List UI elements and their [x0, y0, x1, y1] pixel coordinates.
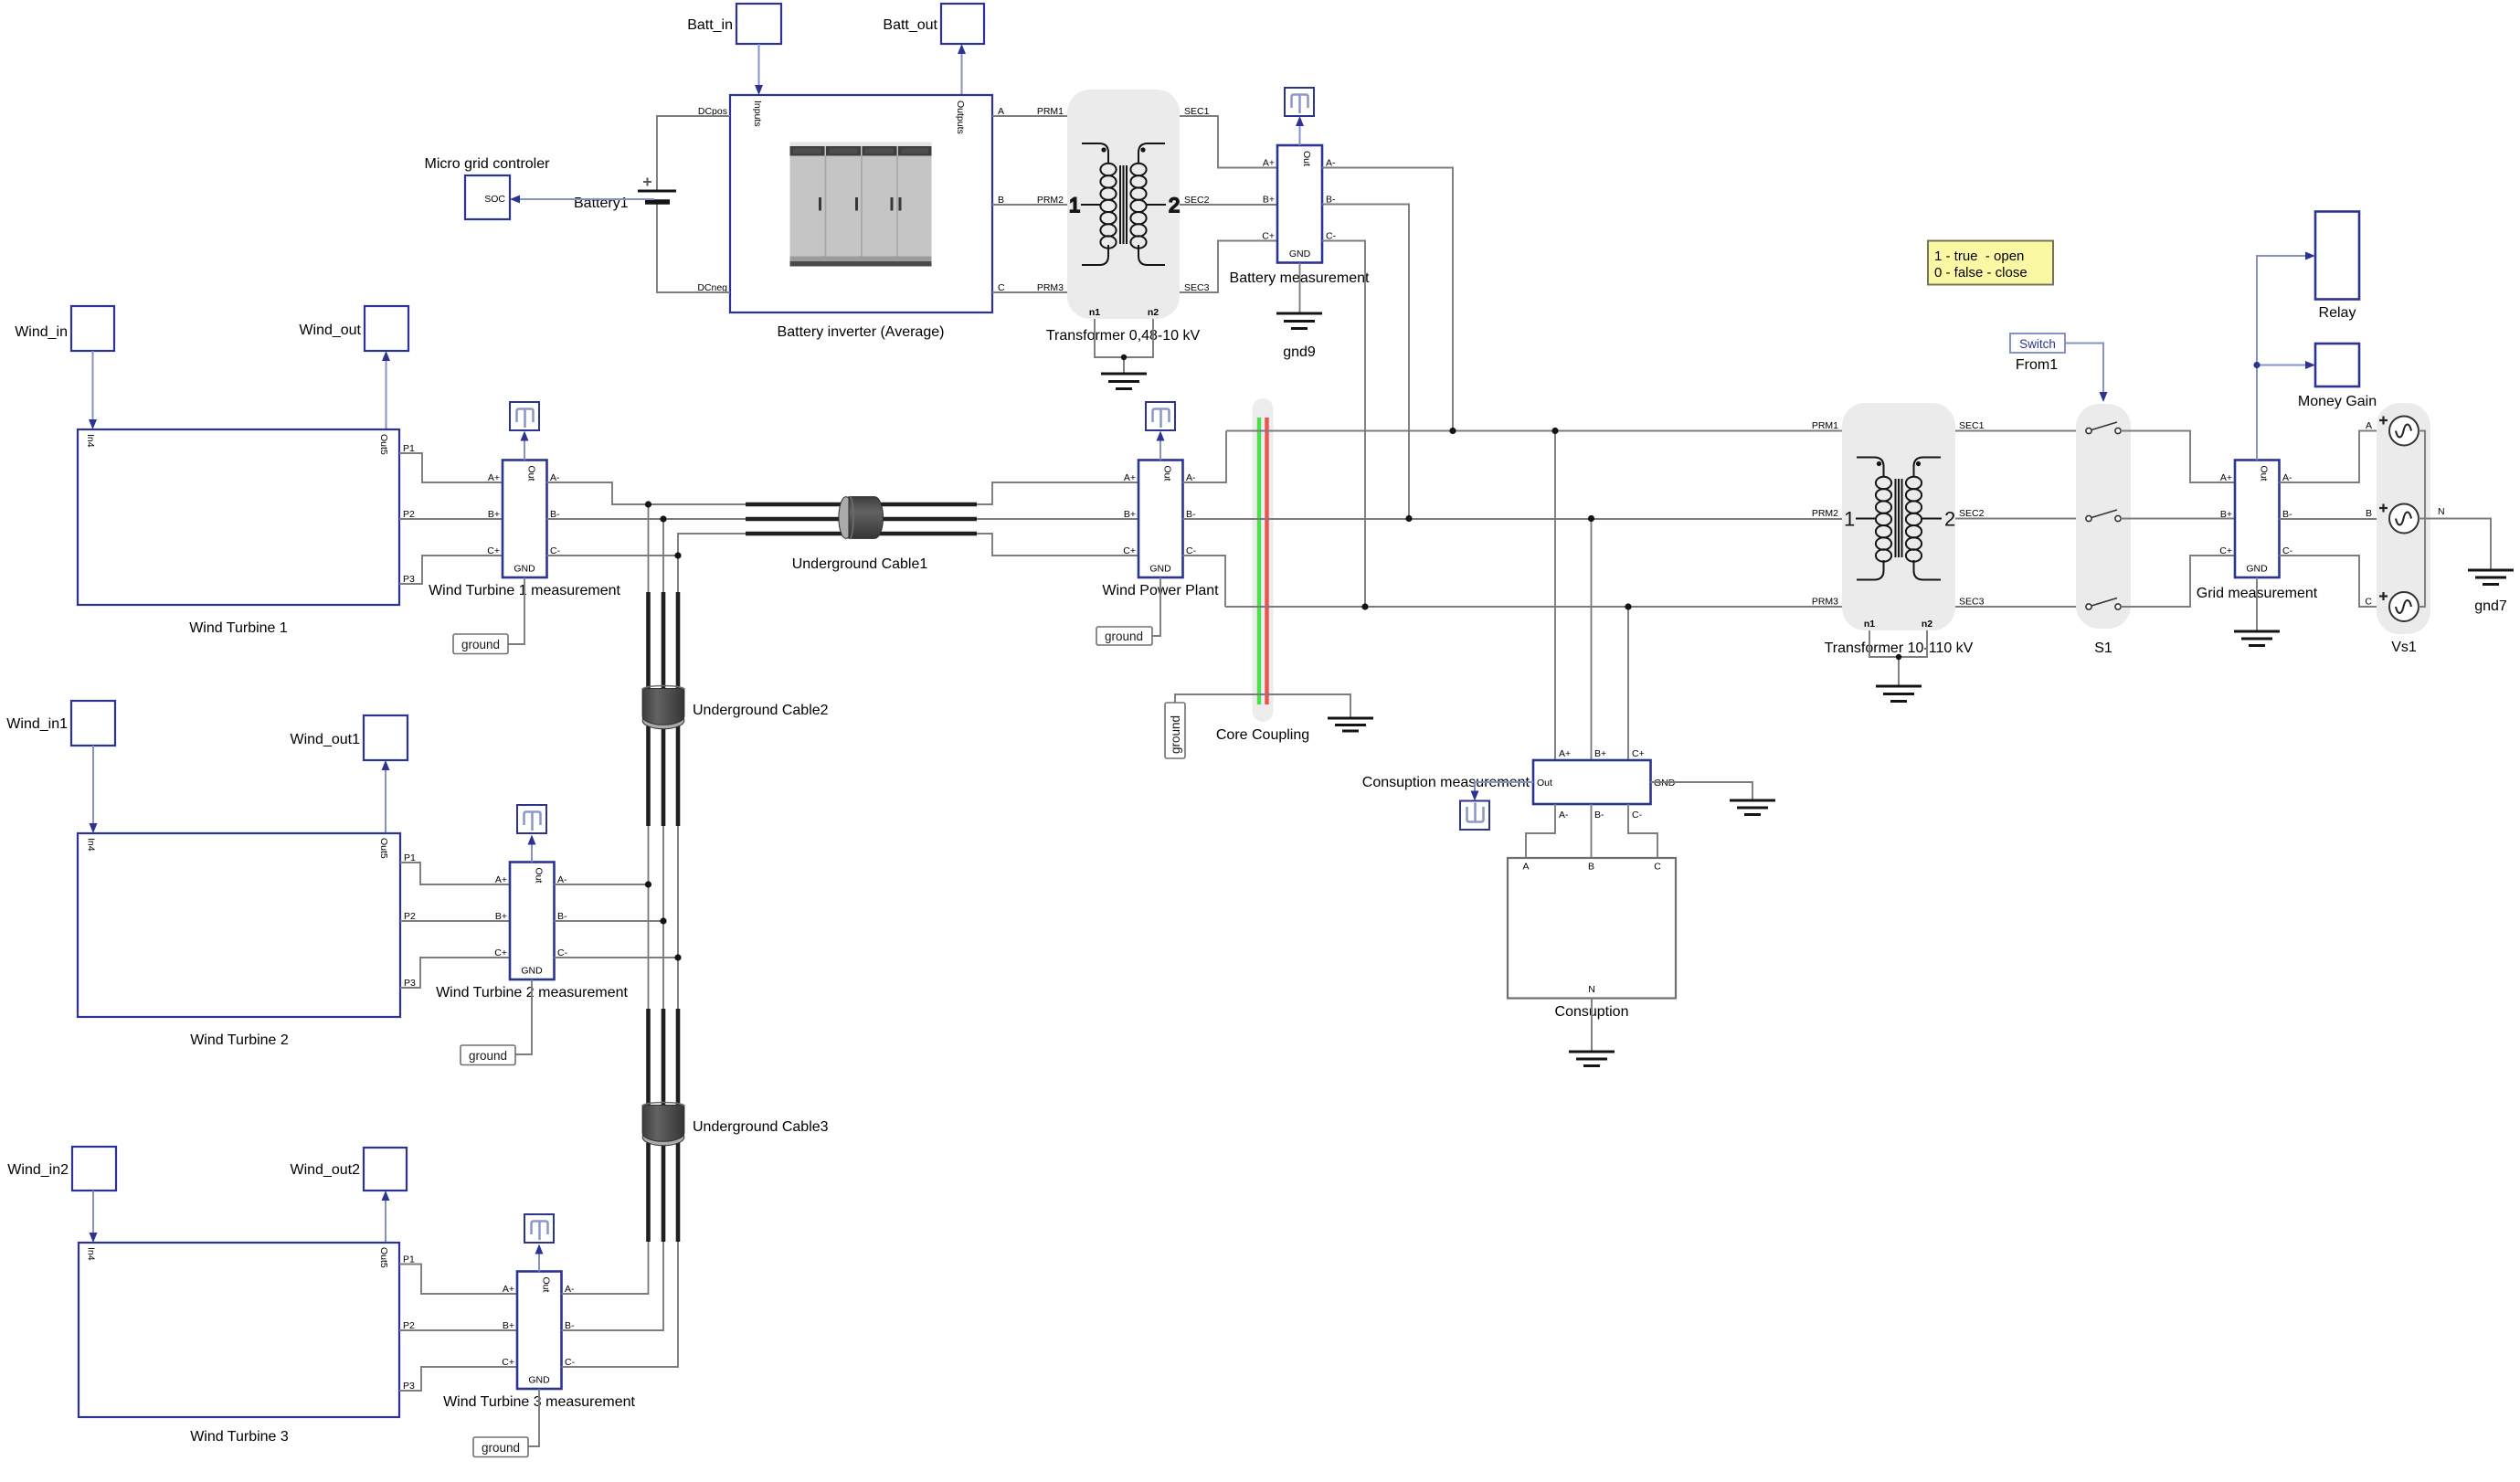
wire WT1 measurement A- to bus — [547, 482, 752, 504]
svg-text:SEC2: SEC2 — [1959, 508, 1985, 519]
wire battery measurement C- down to bus row3 — [1322, 241, 1365, 608]
svg-text:Out5: Out5 — [378, 1247, 389, 1268]
svg-text:n1: n1 — [1864, 619, 1875, 630]
bus row3 10kV — [1225, 606, 1842, 608]
subsystem Wind Turbine 1 — [78, 429, 415, 636]
svg-text:Wind_out1: Wind_out1 — [291, 732, 361, 747]
scope block Money Gain — [2298, 344, 2377, 409]
scope block Relay — [2315, 212, 2359, 322]
svg-text:1 - true - open: 1 - true - open — [1934, 249, 2024, 264]
svg-text:SEC3: SEC3 — [1959, 597, 1985, 608]
wire consumption measurement B- to Consuption B — [1591, 804, 1593, 858]
svg-text:Wind Turbine 1: Wind Turbine 1 — [189, 620, 288, 636]
load block Consuption — [1508, 858, 1676, 1020]
signal wire WT1 measurement Out to scope — [521, 431, 529, 460]
inport block Batt_in — [687, 4, 781, 44]
wire S1 row1 to grid measurement A+ — [2121, 431, 2235, 483]
svg-text:B+: B+ — [495, 911, 507, 922]
inport block Wind_in — [15, 306, 114, 351]
wire Wind Power Plant B- to bus row2 — [1183, 518, 1843, 520]
wire SEC2 to S1 — [1955, 518, 2086, 520]
svg-text:Battery inverter (Average): Battery inverter (Average) — [778, 324, 945, 340]
svg-text:C+: C+ — [1123, 545, 1136, 556]
svg-text:gnd9: gnd9 — [1283, 344, 1316, 360]
signal wire WT2 measurement Out to scope — [528, 835, 536, 863]
wire consumption measurement GND to ground — [1651, 782, 1753, 800]
ground tag WT2 — [461, 1045, 515, 1065]
svg-text:Switch: Switch — [2019, 337, 2056, 351]
signal wire consumption measurement Out to scope — [1471, 782, 1534, 801]
wire SEC3 to S1 — [1955, 606, 2086, 608]
wire grid measurement A- to Vs1 A — [2280, 431, 2391, 483]
svg-text:Out: Out — [541, 1277, 552, 1293]
svg-text:A+: A+ — [495, 874, 507, 885]
svg-text:Batt_out: Batt_out — [883, 17, 937, 33]
subsystem Wind Turbine 3 — [79, 1243, 415, 1445]
signal wire Wind_in1 to Wind Turbine 2 In4 — [90, 746, 98, 833]
svg-text:A+: A+ — [1263, 158, 1275, 169]
annotation note true/false open/close — [1928, 241, 2053, 285]
svg-text:2: 2 — [1169, 194, 1180, 217]
underground cable1 conductors — [746, 504, 977, 534]
svg-text:N: N — [2438, 506, 2445, 517]
svg-text:In4: In4 — [86, 838, 97, 852]
svg-text:GND: GND — [1289, 249, 1311, 259]
svg-text:C: C — [2365, 597, 2372, 608]
svg-text:B+: B+ — [2220, 509, 2232, 520]
svg-text:Inputs: Inputs — [752, 101, 763, 127]
svg-text:A+: A+ — [503, 1284, 514, 1295]
wire row1 to consumption measurement A+ — [1554, 431, 1556, 761]
underground cable3 conductors — [649, 1009, 679, 1242]
wire SEC3 to battery measurement C+ — [1180, 241, 1277, 293]
signal wire grid measurement Out to Relay and Money Gain — [2253, 252, 2315, 460]
svg-text:B+: B+ — [1124, 509, 1136, 520]
measurement block Consuption measurement — [1362, 748, 1676, 820]
svg-text:In4: In4 — [86, 1247, 97, 1261]
inverter cabinet picture — [790, 143, 932, 267]
svg-text:Wind_in2: Wind_in2 — [7, 1162, 69, 1178]
svg-text:Wind_out: Wind_out — [299, 323, 361, 338]
wire grid measurement GND to ground — [2256, 577, 2258, 631]
svg-text:gnd7: gnd7 — [2474, 598, 2507, 614]
ground tag WT1 — [453, 634, 508, 654]
junction dot battery B- on row2 — [1405, 515, 1412, 522]
svg-text:1: 1 — [1069, 194, 1080, 217]
transformer1 winding symbol — [1069, 143, 1180, 265]
svg-text:PRM2: PRM2 — [1812, 508, 1838, 519]
wire WT1 P1 to measurement A+ — [399, 453, 503, 482]
wire S1 row3 to grid measurement C+ — [2121, 556, 2235, 607]
svg-text:n1: n1 — [1089, 307, 1100, 318]
wire WT2 measurement GND to ground tag — [515, 979, 532, 1054]
vertical bus wire phase B to cables 2-3 — [562, 519, 664, 1330]
svg-text:A+: A+ — [1559, 748, 1571, 759]
svg-text:Transformer 0,48-10 kV: Transformer 0,48-10 kV — [1046, 328, 1201, 344]
wire WT1 P3 to measurement C+ — [399, 556, 503, 584]
wire core coupling sheath to grounds — [1175, 694, 1350, 717]
signal wire Batt_in to inverter Inputs — [755, 44, 763, 95]
signal wire Wind Turbine 3 Out5 to Wind_out2 — [382, 1191, 390, 1243]
wire cable1 C to Wind Power Plant C+ — [977, 534, 1138, 556]
svg-text:Money Gain: Money Gain — [2298, 394, 2377, 409]
svg-text:C: C — [1654, 862, 1661, 873]
svg-text:GND: GND — [528, 1375, 550, 1386]
svg-text:Wind Turbine 2: Wind Turbine 2 — [190, 1032, 289, 1048]
svg-text:2: 2 — [1944, 508, 1955, 531]
wire battery measurement GND to gnd9 — [1299, 263, 1301, 314]
signal wire From1 to S1 control — [2065, 344, 2108, 403]
measurement block Battery measurement — [1230, 145, 1371, 286]
transformer 0,48-10 kV block — [1037, 90, 1210, 344]
junction dot battery A- on row1 — [1449, 428, 1456, 434]
ground symbol gnd7 — [2468, 570, 2514, 614]
wire Wind Power Plant C- to bus row3 — [1183, 556, 1226, 607]
svg-text:Underground Cable1: Underground Cable1 — [792, 556, 928, 572]
svg-text:Underground Cable3: Underground Cable3 — [693, 1119, 829, 1135]
ground symbol under Consuption — [1569, 1052, 1615, 1066]
svg-text:C+: C+ — [2219, 545, 2232, 556]
wire WT3 measurement GND to ground tag — [523, 1389, 539, 1446]
wire Wind Power Plant A- to bus row1 — [1183, 431, 1227, 483]
outport block Wind_out1 — [291, 715, 408, 760]
From tag Switch / From1 — [2010, 333, 2065, 373]
underground cable3 cylinder — [642, 1103, 829, 1146]
wire WT3 P1 to measurement A+ — [399, 1265, 517, 1295]
svg-text:ground: ground — [482, 1441, 520, 1455]
svg-text:PRM1: PRM1 — [1037, 106, 1064, 117]
ground tag WT3 — [473, 1437, 528, 1457]
wire SEC2 to battery measurement B+ — [1180, 204, 1277, 206]
scope block above WT3 measurement — [524, 1214, 554, 1243]
outport block Batt_out — [883, 4, 984, 44]
svg-text:C+: C+ — [1632, 748, 1645, 759]
svg-text:B-: B- — [1594, 810, 1604, 820]
wire cable1 A to Wind Power Plant A+ — [977, 482, 1138, 504]
svg-text:Micro grid controler: Micro grid controler — [425, 156, 551, 172]
outport block Wind_out — [299, 306, 408, 351]
wire WT2 measurement B- to vertical bus — [555, 920, 664, 922]
svg-text:Out: Out — [534, 868, 545, 884]
scope block above WT2 measurement — [517, 805, 546, 833]
wire DCpos battery to inverter — [657, 116, 730, 191]
ground symbol at core coupling — [1328, 718, 1373, 731]
transformer2 neutral wires to ground — [1869, 630, 1927, 686]
wire row2 to consumption measurement B+ — [1591, 519, 1593, 761]
Vs1 neutral bus — [2419, 431, 2425, 608]
transformer1 neutral wires to ground — [1095, 319, 1153, 374]
wire consumption measurement C- to Consuption C — [1628, 804, 1657, 858]
vertical bus wire phase A to cables 2-3 — [562, 504, 649, 1294]
svg-text:0 - false - close: 0 - false - close — [1934, 265, 2028, 281]
wire WT1 P2 to measurement B+ — [399, 518, 503, 520]
svg-text:Out: Out — [1162, 466, 1173, 482]
signal wire Wind_in to Wind Turbine 1 In4 — [89, 351, 97, 429]
wire WT2 P3 to measurement C+ — [400, 958, 510, 988]
underground cable2 conductors — [649, 592, 679, 826]
svg-text:B+: B+ — [503, 1320, 514, 1331]
bus row1 10kV — [1226, 430, 1842, 432]
signal wire Wind Turbine 2 Out5 to Wind_out1 — [382, 760, 390, 833]
svg-text:B+: B+ — [488, 509, 500, 520]
wire inverter B to transformer PRM2 — [992, 204, 1067, 206]
wire DCneg battery to inverter — [657, 202, 730, 292]
svg-text:GND: GND — [1654, 778, 1676, 789]
svg-text:B: B — [2366, 508, 2372, 519]
vertical bus wire phase C to cables 2-3 — [562, 556, 679, 1367]
svg-text:N: N — [1588, 984, 1595, 995]
wire battery measurement A- down to bus row1 — [1322, 168, 1453, 431]
junction dots at cable1 taps — [645, 501, 651, 507]
rotated ground tag at core coupling — [1165, 703, 1185, 758]
svg-text:Out: Out — [1537, 778, 1552, 789]
wire WT2 P2 to measurement B+ — [400, 920, 510, 922]
inport block Wind_in1 — [6, 701, 115, 746]
switch block S1 — [2076, 404, 2131, 656]
svg-text:Batt_in: Batt_in — [687, 17, 733, 33]
svg-text:C+: C+ — [494, 947, 507, 958]
svg-text:PRM3: PRM3 — [1037, 282, 1064, 293]
svg-text:Wind Turbine 3: Wind Turbine 3 — [190, 1429, 289, 1445]
ground symbol under transformer1 — [1101, 374, 1147, 389]
junction dot battery C- on row3 — [1361, 603, 1368, 609]
svg-text:Core Coupling: Core Coupling — [1216, 727, 1309, 743]
svg-text:A: A — [1522, 862, 1529, 873]
ground tag Wind Power Plant — [1096, 627, 1152, 645]
wire WT2 measurement C- to vertical bus — [555, 957, 679, 958]
svg-text:Battery1: Battery1 — [574, 196, 629, 211]
svg-text:ground: ground — [461, 638, 500, 651]
ground symbol gnd9 — [1276, 313, 1322, 360]
svg-text:n2: n2 — [1922, 619, 1932, 630]
svg-text:Out: Out — [1301, 151, 1312, 166]
wire SEC1 to S1 — [1955, 430, 2086, 432]
wire WT1 measurement C- to bus — [547, 534, 752, 556]
svg-text:C+: C+ — [1262, 231, 1275, 242]
svg-text:Out5: Out5 — [378, 838, 389, 859]
svg-text:Outputs: Outputs — [955, 101, 966, 134]
scope block above battery measurement — [1285, 88, 1314, 116]
svg-text:ground: ground — [1105, 630, 1143, 643]
svg-text:GND: GND — [2246, 564, 2268, 575]
svg-text:Transformer 10-110 kV: Transformer 10-110 kV — [1825, 640, 1974, 656]
wire WT2 measurement A- to vertical bus — [555, 884, 649, 885]
scope block above Wind Power Plant — [1146, 402, 1175, 430]
underground cable1 cylinder — [792, 497, 928, 572]
svg-text:PRM3: PRM3 — [1812, 597, 1838, 608]
svg-text:ground: ground — [469, 1049, 507, 1063]
measurement block Grid measurement — [2197, 460, 2318, 602]
svg-text:A+: A+ — [2220, 472, 2232, 483]
transformer2 winding symbol — [1844, 458, 1955, 580]
measurement block Wind Turbine 1 measurement — [429, 460, 620, 599]
svg-text:Relay: Relay — [2319, 305, 2356, 321]
wire inverter A to transformer PRM1 — [992, 115, 1067, 117]
subsystem Battery inverter (Average) — [697, 95, 1005, 340]
svg-text:GND: GND — [1149, 564, 1171, 575]
wire WT1 measurement B- to bus — [547, 518, 752, 520]
signal wire Wind Power Plant Out to scope — [1157, 431, 1165, 460]
wire WT3 P2 to measurement B+ — [399, 1329, 517, 1331]
svg-text:GND: GND — [514, 564, 535, 575]
wire Consuption N to ground — [1591, 999, 1593, 1053]
measurement block Wind Turbine 2 measurement — [436, 863, 628, 1001]
underground cable2 cylinder — [642, 686, 829, 729]
svg-text:GND: GND — [521, 966, 543, 977]
svg-text:C+: C+ — [502, 1357, 514, 1368]
svg-text:PRM2: PRM2 — [1037, 195, 1064, 206]
svg-text:A: A — [2366, 420, 2372, 431]
wire Wind Power Plant GND to ground tag — [1152, 577, 1160, 636]
signal wire Wind Turbine 1 Out5 to Wind_out — [382, 351, 390, 429]
core coupling colored lines — [1259, 418, 1267, 704]
measurement block Wind Turbine 3 measurement — [443, 1272, 635, 1411]
svg-text:Wind_out2: Wind_out2 — [291, 1162, 361, 1178]
wire row3 to consumption measurement C+ — [1627, 607, 1629, 760]
svg-text:A+: A+ — [1124, 472, 1136, 483]
wire grid measurement B- to Vs1 B — [2280, 518, 2391, 520]
signal wire Battery1 SOC to controller — [510, 196, 654, 204]
scope block consumption — [1460, 801, 1489, 831]
wire WT3 P3 to measurement C+ — [399, 1367, 517, 1391]
svg-text:Out: Out — [2259, 466, 2270, 482]
svg-text:Vs1: Vs1 — [2391, 640, 2417, 655]
svg-text:Out5: Out5 — [378, 434, 389, 455]
svg-text:Wind_in1: Wind_in1 — [6, 716, 68, 732]
svg-text:n2: n2 — [1148, 307, 1159, 318]
svg-text:ground: ground — [1169, 715, 1182, 754]
wire Vs1 N to gnd7 — [2419, 506, 2491, 570]
signal wire Wind_in2 to Wind Turbine 3 In4 — [90, 1191, 98, 1243]
ground symbol at consumption measurement — [1730, 800, 1775, 815]
inport block Wind_in2 — [7, 1147, 116, 1191]
signal wire battery measurement Out to scope — [1296, 116, 1304, 145]
svg-text:B+: B+ — [1594, 748, 1606, 759]
svg-text:C+: C+ — [487, 545, 500, 556]
ground symbol under transformer2 — [1876, 686, 1922, 702]
outport block Wind_out2 — [291, 1148, 408, 1191]
svg-text:A+: A+ — [488, 472, 500, 483]
svg-text:In4: In4 — [85, 434, 96, 448]
core coupling band — [1253, 398, 1274, 722]
svg-text:SOC: SOC — [484, 194, 505, 205]
svg-text:C-: C- — [1632, 810, 1643, 820]
svg-text:A-: A- — [1559, 810, 1569, 820]
wire S1 row2 to grid measurement B+ — [2121, 518, 2235, 520]
svg-text:S1: S1 — [2094, 640, 2112, 656]
wire inverter C to transformer PRM3 — [992, 291, 1067, 293]
wire grid measurement C- to Vs1 C — [2280, 556, 2391, 607]
svg-text:From1: From1 — [2016, 357, 2058, 373]
svg-text:PRM1: PRM1 — [1812, 420, 1838, 431]
signal wire WT3 measurement Out to scope — [535, 1244, 544, 1272]
battery Battery1 — [574, 178, 676, 212]
svg-text:1: 1 — [1844, 508, 1855, 531]
svg-text:SEC1: SEC1 — [1959, 420, 1985, 431]
wire consumption measurement A- to Consuption A — [1526, 804, 1555, 858]
wire WT1 measurement GND to ground tag — [508, 577, 524, 644]
svg-text:Underground Cable2: Underground Cable2 — [693, 703, 829, 718]
subsystem Micro grid controler — [425, 156, 551, 219]
wire battery measurement B- down to bus row2 — [1322, 205, 1409, 519]
scope block above WT1 measurement — [510, 402, 539, 430]
transformer 10-110 kV block — [1812, 403, 1985, 656]
svg-text:Out: Out — [526, 466, 537, 482]
signal wire inverter Outputs to Batt_out — [958, 44, 966, 95]
wire SEC1 to battery measurement A+ — [1180, 116, 1277, 168]
three-phase source Vs1 — [2365, 403, 2430, 655]
svg-text:Wind_in: Wind_in — [15, 324, 68, 340]
measurement block Wind Power Plant — [1102, 460, 1219, 599]
wire WT2 P1 to measurement A+ — [400, 863, 510, 884]
ground symbol under grid measurement — [2234, 631, 2280, 646]
subsystem Wind Turbine 2 — [78, 833, 416, 1048]
wire cable1 B to Wind Power Plant B+ — [977, 518, 1138, 520]
svg-text:B: B — [1588, 862, 1594, 873]
svg-text:B+: B+ — [1263, 195, 1275, 206]
